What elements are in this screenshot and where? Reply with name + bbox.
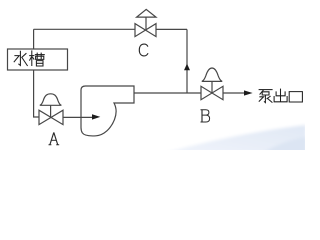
label C: [139, 44, 148, 56]
valve A stem: [50, 105, 52, 117]
valve A body (bowtie): [39, 110, 63, 124]
wire vertical recirculation branch: [186, 29, 188, 93]
pump body: [81, 86, 134, 136]
wire valve B to outlet arrow: [223, 92, 244, 94]
wire tank top to top pipe: [33, 29, 35, 49]
text 泵 (outlet label char 1): [259, 90, 273, 103]
pump inlet arrow: [92, 114, 100, 119]
flow arrow up on recirculation branch: [184, 64, 190, 71]
outlet arrow to 泵出口: [244, 90, 253, 95]
label A: [49, 132, 60, 144]
valve B stem: [211, 81, 213, 93]
valve B actuator (dome): [202, 68, 222, 81]
wire top pipe to valve C: [34, 28, 135, 30]
background watermark swirl bottom-right: [164, 125, 306, 153]
valve C stem: [145, 17, 147, 30]
label B: [201, 110, 210, 122]
wire valve A to pump inlet: [63, 116, 92, 118]
wire tank bottom to valve A: [34, 70, 39, 117]
wire pump outlet to valve B: [134, 92, 201, 94]
valve C actuator (triangle): [137, 9, 156, 17]
watermark deeper tone right corner: [262, 137, 306, 153]
valve C body (bowtie): [135, 24, 156, 37]
valve B body (bowtie): [201, 86, 223, 99]
valve A actuator (dome): [40, 94, 62, 106]
text 水 (tank label char 1): [14, 51, 28, 66]
text 槽 (tank label char 2): [29, 50, 45, 66]
wire valve C to down corner: [156, 28, 187, 30]
text 口 (outlet label char 3): [289, 92, 302, 102]
text 出 (outlet label char 2): [274, 89, 287, 102]
tank box 水槽: [8, 49, 68, 70]
